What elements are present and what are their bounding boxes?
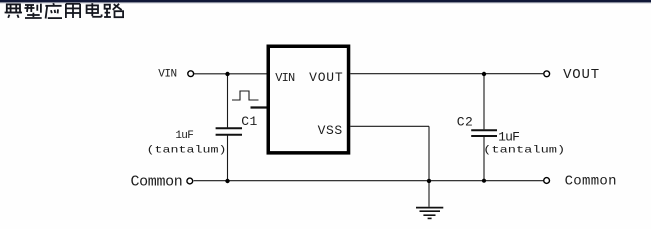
svg-text:VSS: VSS: [318, 123, 343, 138]
svg-text:VOUT: VOUT: [563, 67, 600, 83]
svg-text:VIN: VIN: [158, 69, 176, 81]
svg-text:1uF: 1uF: [498, 130, 519, 145]
svg-text:(tantalum): (tantalum): [483, 144, 565, 156]
svg-text:Common: Common: [131, 174, 183, 191]
svg-text:C2: C2: [457, 115, 474, 130]
svg-text:C1: C1: [241, 114, 258, 129]
svg-text:VIN: VIN: [275, 71, 295, 85]
svg-text:Common: Common: [565, 174, 617, 190]
svg-text:1uF: 1uF: [175, 130, 193, 142]
svg-text:(tantalum): (tantalum): [147, 144, 227, 156]
svg-text:VOUT: VOUT: [309, 70, 343, 85]
